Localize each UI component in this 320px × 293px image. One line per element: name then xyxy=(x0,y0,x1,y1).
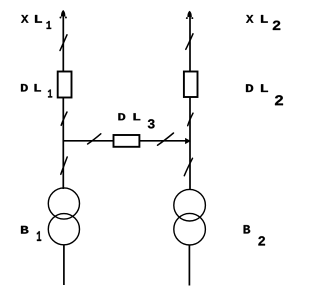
label DL1 xyxy=(21,84,52,98)
wire: right line tie junction to transformer B2 xyxy=(189,141,191,190)
label DL3 xyxy=(118,113,154,128)
switch slash left of DL3 xyxy=(88,134,101,144)
wire: left line tie junction to transformer B1 xyxy=(62,141,64,189)
wire: right feeder vertical line XL2 (arrow base to DL2 top) xyxy=(189,16,191,72)
transformer B1 (two overlapping circles) xyxy=(48,188,79,245)
reactor DL1 (box) xyxy=(58,72,72,98)
reactor DL3 (box) xyxy=(114,135,140,147)
switch slash above B2 xyxy=(184,158,192,175)
switch slash above B1 xyxy=(61,157,67,174)
wire: left line DL1 bottom to tie junction xyxy=(62,98,64,142)
wire: tie line right segment (DL3 to right bus) xyxy=(139,140,190,142)
label XL2 xyxy=(246,15,280,30)
label B2 xyxy=(244,225,265,245)
arrow: XL1 feeder arrowhead xyxy=(60,10,67,18)
wire: B2 secondary lead xyxy=(188,245,190,286)
switch slash below DL2 xyxy=(188,113,193,126)
arrow: XL2 feeder arrowhead xyxy=(186,11,193,19)
arrowhead: tie line into right bus (junction) xyxy=(185,138,191,144)
wire: tie line left segment (left bus to DL3) xyxy=(63,140,113,142)
label DL2 xyxy=(246,84,283,105)
label B1 xyxy=(21,226,41,241)
wire: right line DL2 bottom to tie junction xyxy=(189,97,191,141)
wire: B1 secondary lead xyxy=(63,245,65,285)
reactor DL2 (box) xyxy=(184,72,198,98)
transformer B2 (two overlapping circles) xyxy=(174,189,206,245)
label XL1 xyxy=(21,15,51,29)
switch slash right of DL3 xyxy=(158,133,174,145)
switch slash on XL2 line xyxy=(186,34,193,50)
wire: left feeder vertical line XL1 (arrow base to DL1 top) xyxy=(62,15,64,72)
switch slash on XL1 line xyxy=(60,35,67,51)
switch slash below DL1 xyxy=(61,112,67,125)
